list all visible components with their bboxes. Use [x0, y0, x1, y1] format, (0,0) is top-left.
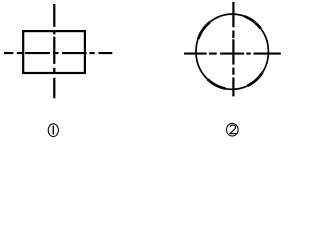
vertical centerline of circle	[232, 2, 234, 96]
horizontal centerline of rectangle	[4, 52, 112, 54]
vertical centerline of rectangle	[53, 4, 55, 98]
circle outline	[196, 14, 268, 89]
rectangle outline	[23, 31, 85, 73]
label 2 (circled digit)	[227, 123, 239, 136]
horizontal centerline of circle	[184, 53, 281, 55]
label 1 (circled digit)	[48, 124, 58, 137]
